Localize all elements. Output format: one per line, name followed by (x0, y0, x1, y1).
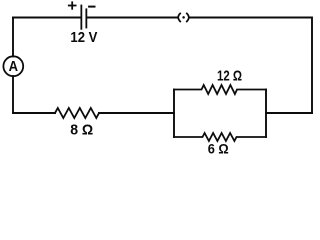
wire (13, 112, 55, 114)
svg-text:6 Ω: 6 Ω (208, 141, 229, 157)
label: - terminal (89, 6, 94, 8)
resistor R1 8Ω (55, 108, 99, 118)
ammeter A1 (3, 56, 23, 76)
wire (12, 18, 14, 57)
resistor R2 12Ω (top branch) (174, 85, 266, 94)
plug key K1 (178, 13, 189, 21)
resistor R3 6Ω (bottom branch) (174, 133, 266, 141)
wire (12, 76, 14, 113)
wire (190, 18, 312, 114)
label: + terminal (69, 2, 76, 9)
svg-text:12 Ω: 12 Ω (217, 68, 242, 85)
wire (99, 112, 174, 114)
battery B1 (12 V) (81, 6, 86, 29)
node: parallel-combination left junction (173, 90, 175, 138)
svg-text:8 Ω: 8 Ω (70, 122, 93, 139)
wire (266, 112, 312, 114)
node: parallel-combination right junction (265, 90, 267, 138)
wire (87, 17, 177, 19)
svg-text:A: A (9, 58, 19, 75)
svg-text:12 V: 12 V (70, 29, 97, 46)
wire (13, 17, 80, 19)
